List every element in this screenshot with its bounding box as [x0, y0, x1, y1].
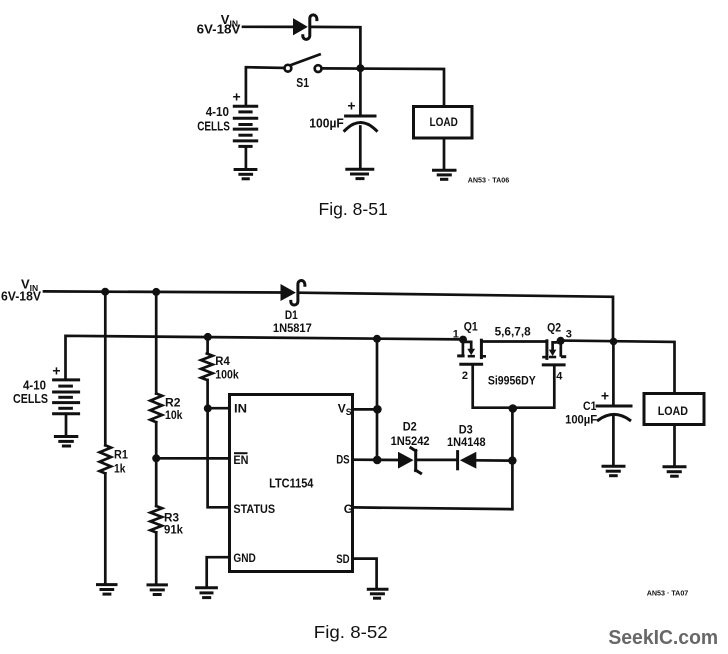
wire EN junction to EN pin [156, 457, 229, 460]
wire STATUS riser [208, 408, 229, 507]
load box (bottom circuit) [644, 394, 704, 425]
wire load to ground [443, 139, 446, 169]
wire source rail 5,6,7,8 bracket [481, 340, 547, 343]
wire R3 to ground [155, 532, 158, 583]
svg-text:SD: SD [336, 552, 350, 566]
svg-text:4-10: 4-10 [23, 379, 46, 393]
node junction R2 on VIN rail [152, 288, 160, 296]
node junction D1 output / C1 on main rail [610, 338, 618, 346]
resistor R2 10k [150, 394, 162, 423]
svg-text:S1: S1 [296, 75, 309, 90]
wire load to ground [673, 425, 676, 465]
ground (top battery) [235, 168, 256, 171]
wire battery negative to ground [245, 146, 248, 167]
node switch output junction [356, 64, 364, 72]
wire D2 cathode to D3 cathode [417, 459, 457, 462]
svg-text:C1: C1 [583, 399, 597, 413]
svg-text:+: + [233, 89, 241, 105]
ground (C1) [603, 465, 624, 468]
svg-text:AN53 · TA07: AN53 · TA07 [647, 588, 689, 597]
svg-text:D3: D3 [459, 422, 473, 436]
svg-text:AN53 · TA06: AN53 · TA06 [468, 175, 510, 184]
svg-text:STATUS: STATUS [233, 502, 275, 516]
diode D2 1N5242 (zener) [398, 452, 414, 469]
node junction Vs [373, 405, 382, 414]
wire capacitor to ground [359, 127, 362, 168]
svg-text:10k: 10k [165, 408, 183, 422]
svg-text:6V-18V: 6V-18V [197, 23, 241, 37]
wire Vs riser (rail to DS) [376, 339, 379, 460]
svg-text:GND: GND [233, 551, 256, 565]
svg-text:4: 4 [556, 371, 563, 383]
svg-text:R1: R1 [114, 447, 128, 461]
svg-text:SeekIC.com: SeekIC.com [608, 627, 718, 649]
diode D3 1N4148 [456, 452, 459, 469]
svg-text:DS: DS [336, 453, 349, 467]
node junction D3/gate riser [508, 456, 516, 464]
svg-text:1N5817: 1N5817 [273, 323, 312, 335]
wire diode cathode to switch-node corner [311, 27, 360, 65]
wire G pin to gate riser [354, 461, 512, 510]
ground (bottom load) [664, 465, 685, 468]
wire gate bus Q1/Q2 [473, 366, 555, 408]
svg-text:Q1: Q1 [464, 319, 478, 333]
wire R4 branch from main rail [206, 337, 209, 354]
ground (top load) [434, 169, 456, 172]
transistor Q2 (right MOSFET) [557, 337, 565, 345]
node junction R4 on main rail [204, 333, 212, 341]
svg-text:100µF: 100µF [565, 412, 597, 426]
node junction IN [204, 404, 212, 412]
svg-text:4-10: 4-10 [206, 105, 229, 119]
resistor R1 1k [100, 445, 111, 473]
svg-text:EN: EN [233, 453, 248, 467]
svg-text:G: G [344, 502, 353, 516]
wire VIN to diode anode [243, 25, 294, 28]
wire junction down to capacitor [359, 68, 362, 114]
svg-text:LOAD: LOAD [430, 115, 459, 129]
wire D3 anode to gate node [476, 459, 512, 462]
svg-text:+: + [52, 363, 60, 379]
wire DS pin to D2 anode [354, 458, 399, 461]
resistor R4 100k [201, 354, 213, 380]
svg-text:LTC1154: LTC1154 [269, 476, 314, 491]
node junction Vs riser on main rail [373, 335, 381, 343]
load box (top circuit) [414, 107, 473, 139]
wire gate bus to D3 node [511, 409, 514, 461]
svg-text:2: 2 [462, 370, 468, 382]
ground (bottom battery) [55, 435, 76, 438]
wire R1 branch from VIN rail [104, 292, 107, 446]
svg-text:3: 3 [566, 329, 572, 341]
node junction R1 on VIN rail [101, 288, 109, 296]
svg-text:1N5242: 1N5242 [391, 436, 430, 448]
svg-text:Q2: Q2 [547, 320, 561, 334]
wire SD pin to ground [354, 559, 377, 588]
svg-text:R4: R4 [215, 354, 230, 368]
wire R2 to EN junction [155, 422, 158, 458]
wire battery top to switch left contact [246, 67, 284, 105]
ground (R3) [148, 583, 166, 586]
node junction gate bus [509, 404, 518, 413]
ground (R1) [98, 583, 117, 586]
transistor Q1 (left MOSFET) [459, 336, 467, 344]
svg-text:100k: 100k [215, 368, 239, 382]
wire R1 to ground [104, 473, 107, 583]
svg-text:D2: D2 [403, 420, 417, 434]
svg-text:+: + [347, 98, 355, 114]
wire switch right contact to junction to LOAD top [322, 68, 444, 106]
node junction DS [373, 456, 382, 465]
wire R2 branch from VIN rail [155, 292, 158, 394]
svg-text:CELLS: CELLS [197, 120, 230, 134]
wire battery negative to ground [65, 414, 68, 435]
Schottky diode (top circuit) [293, 18, 308, 35]
svg-text:100µF: 100µF [309, 117, 344, 131]
resistor R3 91k [155, 458, 158, 506]
wire R4 to IN junction [206, 380, 209, 409]
switch S1 [285, 65, 292, 72]
op-amp/IC U1 LTC1154 box [230, 395, 353, 572]
svg-text:Fig. 8-51: Fig. 8-51 [319, 199, 388, 219]
svg-text:LOAD: LOAD [658, 404, 689, 418]
svg-text:D1: D1 [285, 308, 298, 322]
svg-text:+: + [601, 388, 609, 404]
svg-text:1N4148: 1N4148 [447, 437, 486, 449]
svg-text:IN: IN [234, 402, 247, 416]
svg-text:5,6,7,8: 5,6,7,8 [495, 325, 531, 339]
ground (SD) [368, 588, 387, 591]
diode D1 1N5817 [281, 284, 296, 301]
svg-text:1k: 1k [114, 462, 126, 476]
wire VIN rail to D1 anode [44, 291, 281, 292]
ground (top capacitor) [347, 168, 373, 171]
wire GND pin to ground [207, 557, 229, 586]
svg-text:91k: 91k [164, 523, 183, 537]
node junction EN [152, 454, 160, 462]
svg-text:1: 1 [453, 329, 459, 341]
wire Vs pin to riser [354, 408, 377, 411]
wire D1 cathode to corner above C1 [299, 293, 613, 338]
wire main rail: Q2 to LOAD corner [563, 341, 675, 394]
wire IN junction to IN pin [208, 407, 229, 410]
wire C1 to ground [612, 417, 615, 465]
wire main rail: battery to Q1 [66, 336, 461, 379]
svg-text:CELLS: CELLS [13, 392, 48, 406]
svg-text:Si9956DY: Si9956DY [488, 374, 536, 388]
ground (GND pin) [197, 586, 217, 589]
svg-text:6V-18V: 6V-18V [1, 290, 42, 304]
svg-text:Fig. 8-52: Fig. 8-52 [314, 622, 388, 642]
